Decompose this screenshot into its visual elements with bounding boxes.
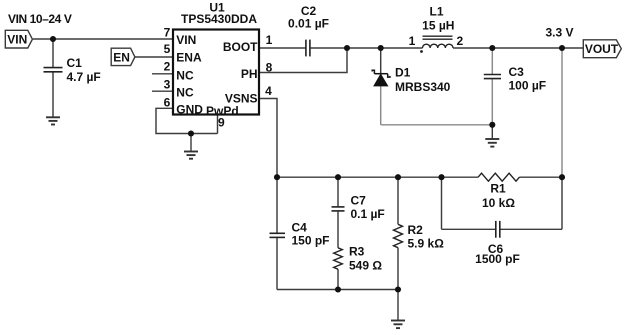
svg-text:4.7 µF: 4.7 µF [67,70,101,84]
svg-text:TPS5430DDA: TPS5430DDA [181,12,257,26]
svg-text:4: 4 [265,84,272,98]
svg-text:C3: C3 [509,65,525,79]
svg-text:R1: R1 [490,182,506,196]
svg-text:R2: R2 [408,223,424,237]
svg-text:3: 3 [164,78,171,92]
svg-text:2: 2 [456,34,463,48]
svg-text:3.3 V: 3.3 V [545,26,573,40]
svg-text:549 Ω: 549 Ω [349,258,382,272]
svg-text:ENA: ENA [176,51,202,65]
svg-text:2: 2 [164,59,171,73]
svg-text:D1: D1 [395,66,411,80]
svg-text:PH: PH [241,67,258,81]
svg-text:VSNS: VSNS [225,91,258,105]
svg-text:150 pF: 150 pF [292,234,330,248]
svg-text:EN: EN [113,51,130,65]
svg-text:0.1 µF: 0.1 µF [351,207,385,221]
svg-text:NC: NC [176,68,194,82]
svg-text:BOOT: BOOT [223,40,258,54]
svg-text:C7: C7 [351,194,367,208]
svg-text:VOUT: VOUT [585,42,619,56]
svg-text:1: 1 [409,34,416,48]
svg-text:6: 6 [164,95,171,109]
svg-text:C1: C1 [67,56,83,70]
svg-text:C4: C4 [292,221,308,235]
svg-text:GND: GND [176,103,203,117]
svg-text:1500 pF: 1500 pF [475,252,520,266]
svg-text:L1: L1 [429,4,443,18]
svg-text:10 kΩ: 10 kΩ [482,196,515,210]
svg-text:VIN: VIN [7,33,27,47]
svg-text:NC: NC [176,86,194,100]
svg-text:8: 8 [266,60,273,74]
svg-text:VIN 10–24 V: VIN 10–24 V [8,12,72,26]
svg-text:9: 9 [218,116,225,130]
svg-text:VIN: VIN [176,33,196,47]
svg-text:100 µF: 100 µF [509,79,547,93]
svg-text:1: 1 [266,33,273,47]
svg-text:15 µH: 15 µH [422,18,454,32]
svg-text:5.9 kΩ: 5.9 kΩ [408,236,445,250]
svg-text:7: 7 [164,26,171,40]
svg-text:0.01 µF: 0.01 µF [288,17,329,31]
svg-text:5: 5 [164,42,171,56]
svg-text:MRBS340: MRBS340 [395,80,451,94]
svg-text:R3: R3 [349,245,365,259]
